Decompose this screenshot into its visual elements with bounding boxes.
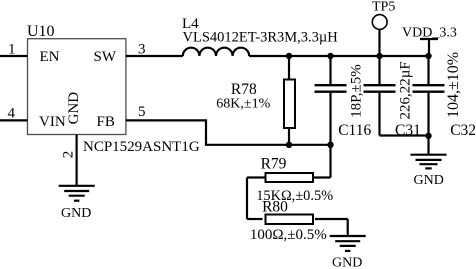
svg-text:TP5: TP5 bbox=[372, 0, 395, 15]
svg-text:NCP1529ASNT1G: NCP1529ASNT1G bbox=[83, 139, 200, 155]
svg-text:VIN: VIN bbox=[39, 114, 66, 130]
svg-text:R80: R80 bbox=[262, 198, 288, 215]
svg-text:C31: C31 bbox=[395, 122, 421, 139]
svg-text:GND: GND bbox=[66, 92, 82, 125]
svg-text:5: 5 bbox=[138, 104, 146, 120]
svg-text:FB: FB bbox=[97, 114, 115, 130]
svg-text:100Ω,±0.5%: 100Ω,±0.5% bbox=[250, 227, 327, 243]
svg-text:GND: GND bbox=[332, 255, 362, 269]
svg-text:C32: C32 bbox=[450, 122, 476, 139]
svg-text:226,22µF: 226,22µF bbox=[397, 61, 413, 119]
svg-text:C116: C116 bbox=[338, 122, 371, 139]
svg-text:GND: GND bbox=[61, 206, 91, 221]
svg-text:SW: SW bbox=[94, 49, 117, 65]
svg-text:U10: U10 bbox=[27, 23, 55, 40]
svg-text:VLS4012ET-3R3M,3.3µH: VLS4012ET-3R3M,3.3µH bbox=[183, 29, 339, 45]
svg-text:18P,±5%: 18P,±5% bbox=[348, 64, 364, 118]
svg-text:VDD_3.3: VDD_3.3 bbox=[402, 26, 457, 41]
svg-text:GND: GND bbox=[414, 173, 444, 188]
svg-text:1: 1 bbox=[8, 41, 16, 57]
svg-text:3: 3 bbox=[138, 42, 146, 58]
svg-text:68K,±1%: 68K,±1% bbox=[216, 97, 270, 112]
svg-text:EN: EN bbox=[40, 49, 60, 65]
svg-text:R79: R79 bbox=[261, 155, 287, 172]
svg-text:4: 4 bbox=[8, 106, 16, 122]
svg-text:104,±10%: 104,±10% bbox=[445, 52, 462, 118]
svg-text:2: 2 bbox=[61, 151, 77, 159]
